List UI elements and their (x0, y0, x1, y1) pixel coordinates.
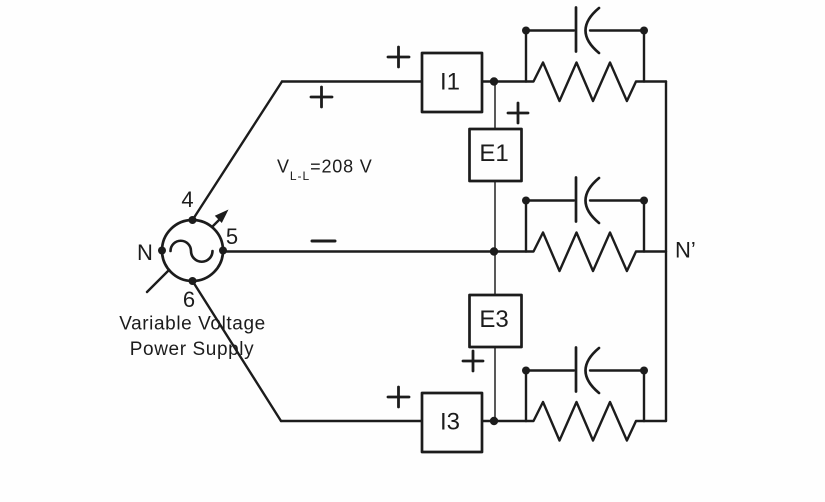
resistor R2 (middle) (526, 233, 644, 272)
svg-text:I1: I1 (440, 69, 460, 96)
resistor R1 (top) (526, 63, 644, 102)
svg-text:6: 6 (183, 287, 195, 312)
wire: C1 right vertical (643, 31, 645, 82)
wire: I1 to junction A (482, 80, 526, 82)
node dot C1 left (522, 27, 530, 35)
wire: bottom horizontal to I3 (281, 420, 422, 422)
svg-text:E1: E1 (479, 140, 508, 167)
capacitor C1 (top) (526, 8, 644, 54)
ammeter I1 box (422, 53, 482, 112)
voltmeter E1 box (470, 129, 522, 181)
wire: R1 right to bus (644, 80, 666, 82)
polarity + (above E1) (508, 103, 528, 123)
node dot C1 right (640, 27, 648, 35)
svg-text:N: N (137, 240, 153, 265)
caption Variable Voltage Power Supply (119, 314, 266, 361)
wire: terminal 6 to bottom line corner (193, 281, 282, 421)
polarity + (before I1) (388, 47, 409, 67)
node dot C3 right (640, 367, 648, 375)
wire: right bus N' vertical (665, 82, 667, 422)
capacitor C2 (middle) (526, 178, 644, 224)
wire: C3 right vertical (643, 371, 645, 422)
node dot C2 left (522, 197, 530, 205)
terminal 5 dot (219, 247, 227, 255)
wire: terminal 4 to top line corner (193, 82, 283, 221)
wire: R2 right to bus (644, 250, 666, 252)
arrow (variability arrow through source) (147, 217, 222, 292)
node dot C3 left (522, 367, 530, 375)
arrowhead of variability arrow (215, 210, 229, 224)
svg-text:VL-L=208 V: VL-L=208 V (277, 157, 373, 184)
wire: E1 to middle junction (494, 181, 496, 252)
wire: C2 left vertical (525, 201, 527, 252)
svg-text:E3: E3 (479, 306, 508, 333)
voltmeter E3 box (470, 295, 522, 347)
source U1 (variable AC supply circle) (162, 220, 223, 281)
wire: R3 right to bus (644, 420, 666, 422)
wire: C3 left vertical (525, 371, 527, 422)
wire: middle junction to E3 (494, 252, 496, 296)
wire: C1 left vertical (525, 31, 527, 82)
polarity + (below E3) (463, 351, 483, 371)
ammeter I3 box (422, 393, 482, 452)
node B junction dot (middle) (490, 247, 498, 255)
terminal 4 dot (189, 216, 197, 224)
svg-text:4: 4 (181, 187, 193, 212)
terminal 6 dot (189, 277, 197, 285)
node dot C2 right (640, 197, 648, 205)
wire: E3 to bottom junction (494, 347, 496, 421)
terminal N dot (158, 247, 166, 255)
node A junction dot (top) (490, 77, 498, 85)
wire: top horizontal to I1 (282, 80, 422, 82)
wire: vertical E-branch (junction A to E1) (494, 82, 496, 130)
svg-text:N’: N’ (675, 238, 696, 263)
resistor R3 (bottom) (526, 402, 644, 441)
svg-text:I3: I3 (440, 409, 460, 436)
capacitor C3 (bottom) (526, 348, 644, 394)
polarity + (top line, near corner) (311, 87, 332, 107)
wire: terminal 5 to middle junction (223, 250, 526, 252)
svg-text:Variable Voltage: Variable Voltage (119, 314, 266, 335)
wire: C2 right vertical (643, 201, 645, 252)
polarity + (before I3) (388, 387, 409, 407)
node C junction dot (bottom) (490, 417, 498, 425)
polarity - (middle line) (312, 240, 335, 243)
svg-text:Power Supply: Power Supply (130, 339, 254, 360)
svg-text:5: 5 (226, 224, 238, 249)
wire: I3 to junction C (482, 420, 526, 422)
